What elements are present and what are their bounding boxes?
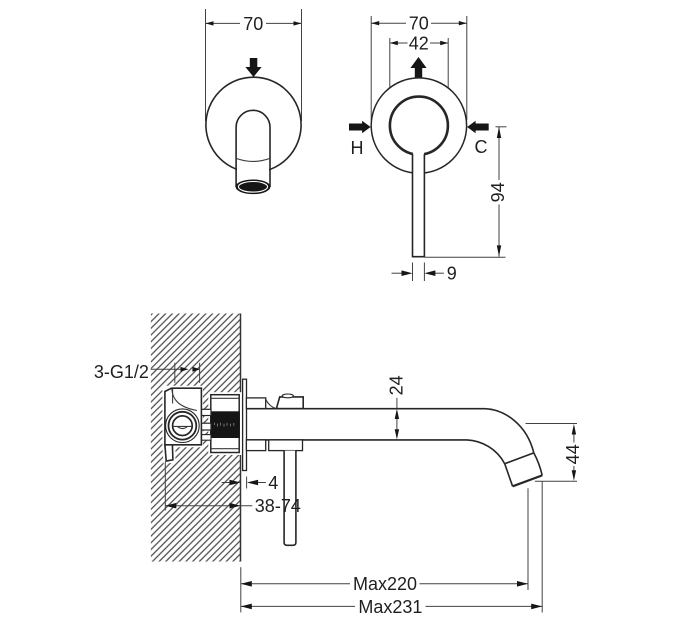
svg-text:Max231: Max231 xyxy=(358,597,422,617)
svg-text:70: 70 xyxy=(409,14,429,34)
svg-text:4: 4 xyxy=(268,473,278,493)
svg-text:42: 42 xyxy=(409,34,429,54)
svg-text:3-G1/2: 3-G1/2 xyxy=(94,362,149,382)
svg-text:94: 94 xyxy=(488,182,508,202)
svg-text:44: 44 xyxy=(563,444,583,464)
svg-text:24: 24 xyxy=(387,375,407,395)
svg-text:9: 9 xyxy=(447,264,457,284)
svg-text:H: H xyxy=(351,138,364,158)
svg-text:C: C xyxy=(475,137,488,157)
svg-text:Max220: Max220 xyxy=(353,574,417,594)
svg-text:38-74: 38-74 xyxy=(255,496,301,516)
svg-text:70: 70 xyxy=(243,14,263,34)
